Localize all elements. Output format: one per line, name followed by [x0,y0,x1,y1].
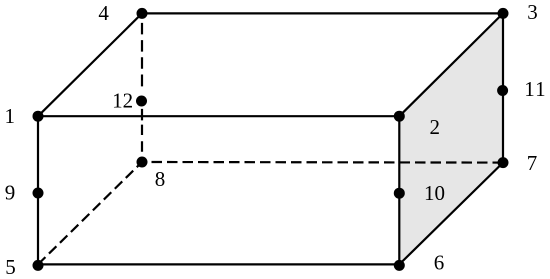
svg-text:7: 7 [527,151,538,175]
wire edge 1-5 (front left vertical) [37,116,39,264]
wire edge 6-7 (bottom right diagonal) [399,163,503,265]
shaded right face 2-3-7-6 [399,13,503,264]
node 4 vertex dot [137,8,148,19]
wire edge 1-4 (top left diagonal) [38,13,142,116]
svg-text:1: 1 [4,104,15,128]
wire edge 2-6 (front right vertical) [398,116,400,264]
wire edge 4-8 dashed (back left vertical, hidden) [141,23,143,162]
svg-text:4: 4 [98,1,109,25]
node 11 midpoint dot [497,85,508,96]
wire edge 5-6 (front bottom) [38,263,399,265]
node 5 vertex dot [33,260,44,271]
node 10 midpoint dot [394,188,405,199]
wire edge 5-8 dashed (bottom left diagonal, hidden) [38,162,142,264]
svg-text:5: 5 [5,255,16,279]
node 6 vertex dot [394,260,405,271]
svg-text:6: 6 [434,251,445,275]
wire edge 8-7 dashed (bottom back, hidden) [152,161,504,164]
svg-text:3: 3 [527,0,538,24]
node 2 vertex dot [394,111,405,122]
svg-text:2: 2 [429,115,440,139]
node 12 midpoint dot [136,96,147,107]
node 7 vertex dot [498,157,509,168]
wire edge 3-7 (back right vertical) [502,13,504,162]
svg-text:9: 9 [5,181,16,205]
wire edge 2-3 (top right diagonal) [399,13,503,116]
node 8 vertex dot [137,157,148,168]
node 9 midpoint dot [33,188,44,199]
svg-text:8: 8 [155,167,166,191]
svg-text:10: 10 [424,181,445,205]
svg-text:12: 12 [112,89,133,113]
node 3 vertex dot [498,8,509,19]
node 1 vertex dot [33,111,44,122]
svg-text:11: 11 [524,77,547,101]
wire edge 4-3 (top back) [142,12,503,14]
wire edge 1-2 (front top) [38,115,399,117]
